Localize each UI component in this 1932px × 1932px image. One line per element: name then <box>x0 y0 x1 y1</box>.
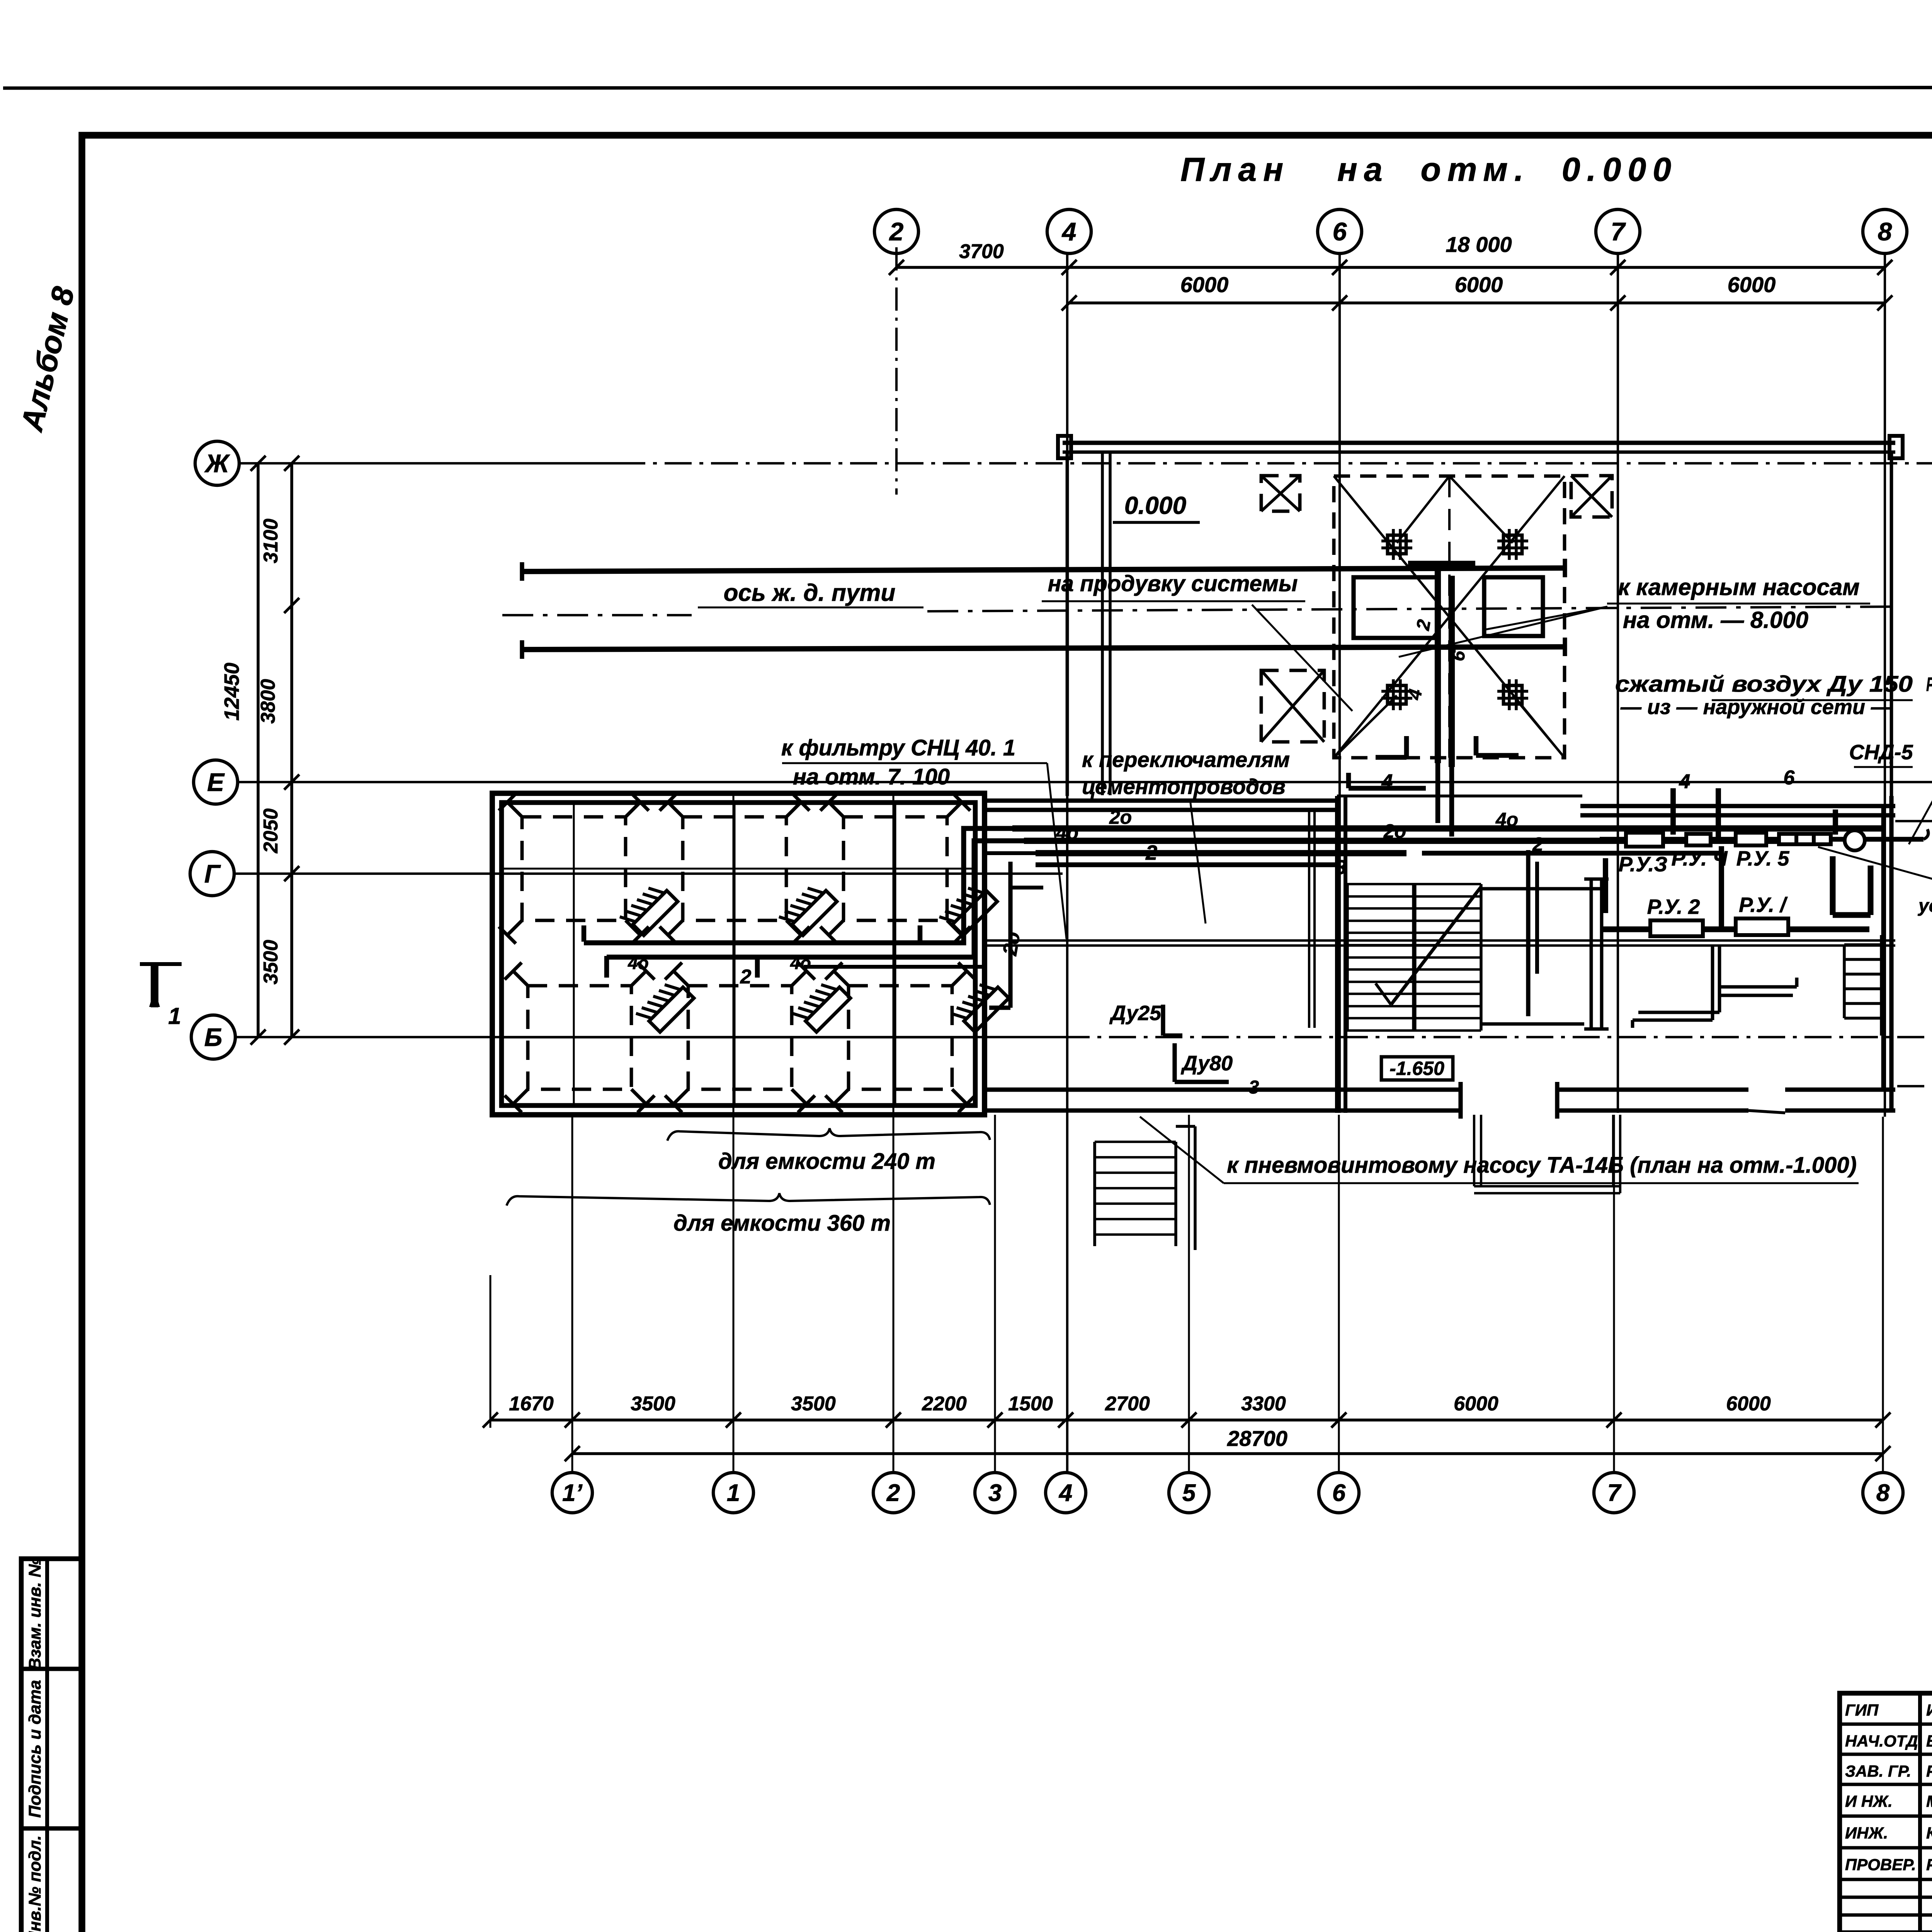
svg-text:2о: 2о <box>1109 806 1132 828</box>
svg-text:4: 4 <box>1381 770 1393 793</box>
tank building outer wall <box>492 793 985 1115</box>
right ladder hatch <box>1844 943 1881 946</box>
axis line Е <box>238 781 1932 783</box>
brace for емкость 360т <box>507 1193 990 1206</box>
cement tank row2 col3 <box>849 986 952 1089</box>
stairs hatch <box>1347 883 1481 885</box>
svg-text:7: 7 <box>1607 1480 1622 1507</box>
svg-text:2050: 2050 <box>260 808 282 854</box>
axis line x=4878 <box>1884 253 1886 1117</box>
axis circle 1’ (bottom) <box>552 1473 592 1513</box>
extra pipe run west <box>1036 862 1337 867</box>
landing beams <box>1480 887 1604 891</box>
svg-text:28700: 28700 <box>1227 1426 1287 1451</box>
door opening posts <box>1458 1082 1463 1119</box>
svg-text:Р.У. 2: Р.У. 2 <box>1647 895 1700 918</box>
svg-text:8: 8 <box>1876 1480 1890 1507</box>
svg-text:СНД-5: СНД-5 <box>1849 741 1913 764</box>
extra pipe run 4 <box>1422 851 1719 856</box>
air dryer pump circle <box>1845 830 1865 850</box>
svg-text:РЕЗИНСКИХ: РЕЗИНСКИХ <box>1926 1855 1932 1874</box>
main pipe run 1 <box>1012 825 1882 832</box>
pipe going down along x2615 <box>1008 862 1012 1008</box>
svg-text:Р.У. 5: Р.У. 5 <box>1736 847 1790 870</box>
small pipe elbows near Ду <box>1161 1005 1165 1036</box>
east wall lower <box>1889 796 1893 1112</box>
svg-text:4: 4 <box>1061 217 1077 246</box>
svg-text:2: 2 <box>740 966 752 988</box>
pump hopper right <box>1484 577 1543 636</box>
hall riser pipe pair <box>1101 452 1104 795</box>
svg-text:4о: 4о <box>1495 809 1518 830</box>
svg-text:3500: 3500 <box>631 1393 675 1415</box>
leader <box>1190 800 1206 923</box>
svg-text:2200: 2200 <box>922 1393 967 1415</box>
shaft box top-right <box>1571 476 1612 517</box>
svg-text:к фильтру СНЦ 40. 1: к фильтру СНЦ 40. 1 <box>781 735 1015 760</box>
pipe stub verticals <box>582 925 587 942</box>
svg-text:ось ж. д. пути: ось ж. д. пути <box>724 580 896 606</box>
svg-text:6: 6 <box>1784 767 1795 789</box>
axis circle 8 (bottom) <box>1863 1473 1903 1513</box>
svg-text:Подпись и дата: Подпись и дата <box>26 1680 44 1818</box>
svg-text:18 000: 18 000 <box>1446 232 1512 257</box>
stairs diagonal arrow <box>1391 887 1481 1005</box>
west end column <box>1058 436 1071 458</box>
south wall segment west <box>986 1087 1461 1092</box>
axis line Ж <box>239 462 618 464</box>
underground duct U to pump <box>1473 1115 1475 1186</box>
axis circle Г (left) <box>190 852 234 896</box>
axis 4,5 verticals below building <box>1188 1115 1190 1472</box>
heavy vertical pipe 2 <box>1449 576 1455 767</box>
hopper flange bottom-left <box>1388 685 1406 704</box>
tank hall interior row lines <box>501 868 976 870</box>
axis circle Е (left) <box>194 760 238 804</box>
bunker top funnel lines <box>1397 476 1449 543</box>
railway centerline <box>502 614 692 616</box>
railway rail line bottom <box>522 647 1565 650</box>
thin partition west of stairwell <box>1308 811 1310 1028</box>
svg-text:1’: 1’ <box>562 1480 582 1507</box>
stairwell west wall <box>1335 796 1339 1113</box>
svg-text:1: 1 <box>727 1480 740 1507</box>
svg-text:6: 6 <box>1333 217 1347 246</box>
hopper flange top-left <box>1388 535 1406 554</box>
svg-text:4о: 4о <box>1056 822 1078 844</box>
axis line Б continues as dash-dot <box>1063 1036 1932 1038</box>
valve boxes РУ3 РУ4 РУ5 <box>1626 833 1663 847</box>
leader line from фильтру to pipes <box>1047 763 1066 939</box>
svg-text:на отм. 7. 100: на отм. 7. 100 <box>793 764 950 789</box>
partition shaft wall x4125 <box>1590 879 1593 1029</box>
heavy T pipe horizontal <box>1408 561 1475 568</box>
svg-text:для емкости 360 т: для емкости 360 т <box>673 1211 891 1236</box>
svg-text:2о: 2о <box>998 930 1025 957</box>
axis line Г <box>234 872 1063 875</box>
axis circle 7 (top) <box>1596 209 1640 253</box>
svg-text:6: 6 <box>1332 1480 1346 1507</box>
left vertical dimension line 12450 <box>257 463 260 1037</box>
svg-text:Р=0,7МПа: Р=0,7МПа <box>1926 673 1932 695</box>
svg-text:3500: 3500 <box>791 1393 836 1415</box>
svg-text:Ду80: Ду80 <box>1181 1052 1233 1075</box>
axis circle 2 (bottom) <box>873 1473 913 1513</box>
axis 2 line (dash-dot vertical) <box>895 247 898 495</box>
leader line <box>1252 605 1352 711</box>
axis circle 4 (top) <box>1047 209 1091 253</box>
svg-text:3800: 3800 <box>257 679 279 724</box>
axis circle 2 (top) <box>874 209 918 253</box>
axis circle 6 (bottom) <box>1319 1473 1359 1513</box>
svg-text:2: 2 <box>1413 618 1435 632</box>
svg-text:2: 2 <box>886 1480 900 1507</box>
svg-text:2: 2 <box>1532 833 1543 855</box>
top dimension line 6000x3 <box>1069 301 1885 304</box>
top dimension line 3700/18000 <box>896 266 1885 269</box>
east wall of hall <box>1890 451 1893 796</box>
paper top edge line <box>3 87 1932 88</box>
svg-text:8: 8 <box>1878 217 1892 246</box>
axis line А stub <box>1897 1085 1932 1087</box>
heavy pipes lower continuation <box>1435 763 1440 823</box>
svg-text:Взам. инв. №: Взам. инв. № <box>26 1558 44 1670</box>
svg-text:6000: 6000 <box>1726 1393 1771 1415</box>
cement tank row2 col2 <box>688 986 792 1089</box>
svg-text:на продувку системы: на продувку системы <box>1048 571 1298 596</box>
main pipe run 2 <box>1024 838 1777 844</box>
svg-text:3300: 3300 <box>1241 1393 1286 1415</box>
extension verticals to dim lines <box>490 1275 492 1428</box>
aeration device row2 <box>793 977 850 1035</box>
svg-text:3100: 3100 <box>260 519 282 563</box>
room wall horizontal y2405 <box>1602 927 1869 932</box>
shaft box top-left <box>1261 476 1300 511</box>
aeration device row1 <box>779 880 837 938</box>
svg-text:Альбом 8: Альбом 8 <box>14 284 81 435</box>
compressed air main pipe through valves <box>1600 837 1923 842</box>
section mark 1 (left) <box>151 964 158 1007</box>
svg-text:3: 3 <box>988 1480 1002 1507</box>
aeration device row1 <box>939 880 997 938</box>
axis circle 1 (bottom) <box>713 1473 753 1513</box>
svg-text:устройства осушки сжатого возд: устройства осушки сжатого воздуха <box>1918 896 1932 916</box>
svg-text:6000: 6000 <box>1454 1393 1498 1415</box>
north wall of silo hall <box>1063 440 1895 445</box>
svg-text:Б: Б <box>204 1023 223 1051</box>
svg-text:3500: 3500 <box>260 940 282 985</box>
axis circle 3 (bottom) <box>975 1473 1015 1513</box>
room wall vertical x4455 <box>1719 846 1724 929</box>
svg-text:И НЖ.: И НЖ. <box>1845 1792 1893 1810</box>
railway rail line top <box>522 568 1565 571</box>
svg-text:ПРОВЕР.: ПРОВЕР. <box>1845 1855 1916 1874</box>
tank hall interior column lines <box>573 802 575 1106</box>
svg-text:ГИП: ГИП <box>1845 1701 1879 1719</box>
axis circle 7 (bottom) <box>1594 1473 1634 1513</box>
elbow into tank building <box>584 828 1020 943</box>
svg-text:1500: 1500 <box>1008 1393 1053 1415</box>
svg-text:4о: 4о <box>790 953 811 973</box>
svg-text:ВОЛКОВ: ВОЛКОВ <box>1926 1732 1932 1750</box>
svg-text:ИНЖ.: ИНЖ. <box>1845 1824 1888 1842</box>
РУ2 box <box>1650 920 1703 936</box>
axis circle 8 (top) <box>1863 209 1907 253</box>
svg-text:4: 4 <box>1058 1480 1072 1507</box>
bunker diagonals <box>1334 476 1565 758</box>
east end column <box>1889 436 1903 458</box>
left vertical dimension line 3100/3800/2050/3500 <box>290 463 293 1037</box>
duct horizontal with hook <box>1719 985 1797 989</box>
svg-text:2: 2 <box>1145 841 1157 864</box>
svg-text:Е: Е <box>207 768 225 796</box>
svg-text:4: 4 <box>1679 770 1690 793</box>
svg-text:Р.У.З: Р.У.З <box>1619 853 1667 876</box>
axis circle 6 (top) <box>1318 209 1362 253</box>
axis circle 4 (bottom) <box>1046 1473 1086 1513</box>
west wall of hall <box>1066 451 1069 796</box>
title block signature table <box>1840 1693 1932 1932</box>
svg-text:2о: 2о <box>1383 820 1406 842</box>
svg-text:1: 1 <box>168 1003 181 1029</box>
svg-text:-1.650: -1.650 <box>1389 1058 1444 1079</box>
svg-text:— из — наружной сети —: — из — наружной сети — <box>1620 696 1892 719</box>
svg-text:НАЧ.ОТД.: НАЧ.ОТД. <box>1845 1732 1922 1750</box>
svg-text:ЗАВ. ГР.: ЗАВ. ГР. <box>1845 1762 1911 1780</box>
svg-text:Ж: Ж <box>204 449 230 478</box>
small outside stairs <box>1095 1141 1176 1143</box>
svg-text:Ду25: Ду25 <box>1109 1002 1162 1025</box>
pipe elbow stubs <box>1404 736 1409 757</box>
main pipe run 3 <box>1036 850 1406 856</box>
С-shaped wall around dryer room <box>1830 856 1836 915</box>
axis line x=4187 <box>1617 253 1619 1113</box>
svg-text:5: 5 <box>1182 1480 1196 1507</box>
leader lines to камерным насосам <box>1399 607 1607 657</box>
vertical feed pipes from bunker pipes <box>1670 788 1676 835</box>
brace for емкость 240т <box>667 1128 990 1141</box>
svg-text:7: 7 <box>1611 217 1626 246</box>
bottom dimension line (detailed) <box>490 1418 1883 1422</box>
svg-text:План на отм. 0.000: План на отм. 0.000 <box>1180 151 1671 188</box>
cement tank row1 col1 <box>522 817 626 920</box>
svg-text:6000: 6000 <box>1455 272 1503 297</box>
axis circle Ж (left) <box>195 441 239 485</box>
axis line 3 vertical <box>994 1115 996 1472</box>
aeration device row2 <box>951 977 1009 1035</box>
corridor floor line y2434 <box>986 939 1895 942</box>
hopper flange top-right <box>1503 535 1522 554</box>
svg-text:4о: 4о <box>628 953 649 973</box>
leader to осушки <box>1818 847 1932 900</box>
svg-text:ИВАНОВА: ИВАНОВА <box>1926 1701 1932 1719</box>
pump hopper left <box>1354 577 1439 638</box>
shaft box mid-left <box>1261 670 1324 742</box>
big dashed bunker square <box>1334 476 1565 758</box>
axis line x=3467 <box>1338 253 1341 1113</box>
aeration device row2 <box>636 977 694 1035</box>
axis line 1prime vertical <box>571 1115 573 1472</box>
svg-text:12450: 12450 <box>220 663 243 721</box>
svg-text:Инв.№ подл.: Инв.№ подл. <box>26 1835 44 1932</box>
axis circle 5 (bottom) <box>1169 1473 1209 1513</box>
heavy vertical pipe 1 <box>1435 564 1441 763</box>
axis line Д stub <box>1895 820 1932 822</box>
svg-text:2: 2 <box>889 217 904 246</box>
corridor top wall <box>986 798 1341 803</box>
svg-text:МАЛЮКОВА: МАЛЮКОВА <box>1926 1792 1932 1810</box>
svg-text:2700: 2700 <box>1105 1393 1150 1415</box>
cement tank row2 col1 <box>528 986 631 1089</box>
axis line Б <box>235 1036 1063 1038</box>
south wall segment east <box>1557 1087 1748 1092</box>
duct elbow 1 <box>1711 947 1714 1020</box>
axis line x=2762 <box>1066 253 1068 1472</box>
svg-text:6000: 6000 <box>1180 272 1229 297</box>
svg-text:к пневмовинтовому насосу Т: к пневмовинтовому насосу ТА-14Б (план на… <box>1227 1153 1857 1178</box>
stairs mid rail vertical <box>1412 884 1416 1031</box>
bottom overall dimension 28700 <box>572 1452 1883 1455</box>
svg-text:Р.У. /: Р.У. / <box>1739 893 1788 917</box>
axis circle Б (left) <box>191 1015 235 1059</box>
svg-text:цементопроводов: цементопроводов <box>1082 774 1286 799</box>
svg-text:на отм. — 8.000: на отм. — 8.000 <box>1623 607 1808 633</box>
axis line 2 vertical <box>893 793 895 1472</box>
svg-text:КАРАВАЕВА: КАРАВАЕВА <box>1926 1824 1932 1842</box>
svg-text:к камерным насосам: к камерным насосам <box>1618 574 1859 600</box>
cement tank row1 col2 <box>683 817 786 920</box>
hopper flange bottom-right <box>1503 685 1522 704</box>
cement tank row1 col3 <box>844 817 947 920</box>
svg-text:к переключателям: к переключателям <box>1082 747 1290 772</box>
aeration device row1 <box>620 880 678 938</box>
bunker center vertical dashed <box>1448 476 1451 758</box>
svg-text:6000: 6000 <box>1728 272 1776 297</box>
svg-text:для емкости 240 т: для емкости 240 т <box>718 1149 935 1174</box>
corridor top wall east part <box>1580 804 1895 808</box>
stair landing wall right <box>1526 850 1530 1016</box>
svg-text:3700: 3700 <box>959 240 1004 263</box>
svg-text:0.000: 0.000 <box>1124 492 1186 519</box>
РУ1 box <box>1736 918 1788 935</box>
left stamp column box <box>21 1559 81 1932</box>
svg-text:Г: Г <box>204 859 221 888</box>
room wall vertical x4155 <box>1603 858 1608 913</box>
tank building inner wall lines <box>490 793 494 1115</box>
svg-text:1670: 1670 <box>509 1393 554 1415</box>
level mark -1.650 <box>1381 1057 1453 1080</box>
svg-text:РЕЗИНСКИХ: РЕЗИНСКИХ <box>1926 1762 1932 1780</box>
svg-text:сжатый воздух Ду 150: сжатый воздух Ду 150 <box>1615 672 1913 697</box>
axis line 1 vertical <box>733 793 735 1472</box>
